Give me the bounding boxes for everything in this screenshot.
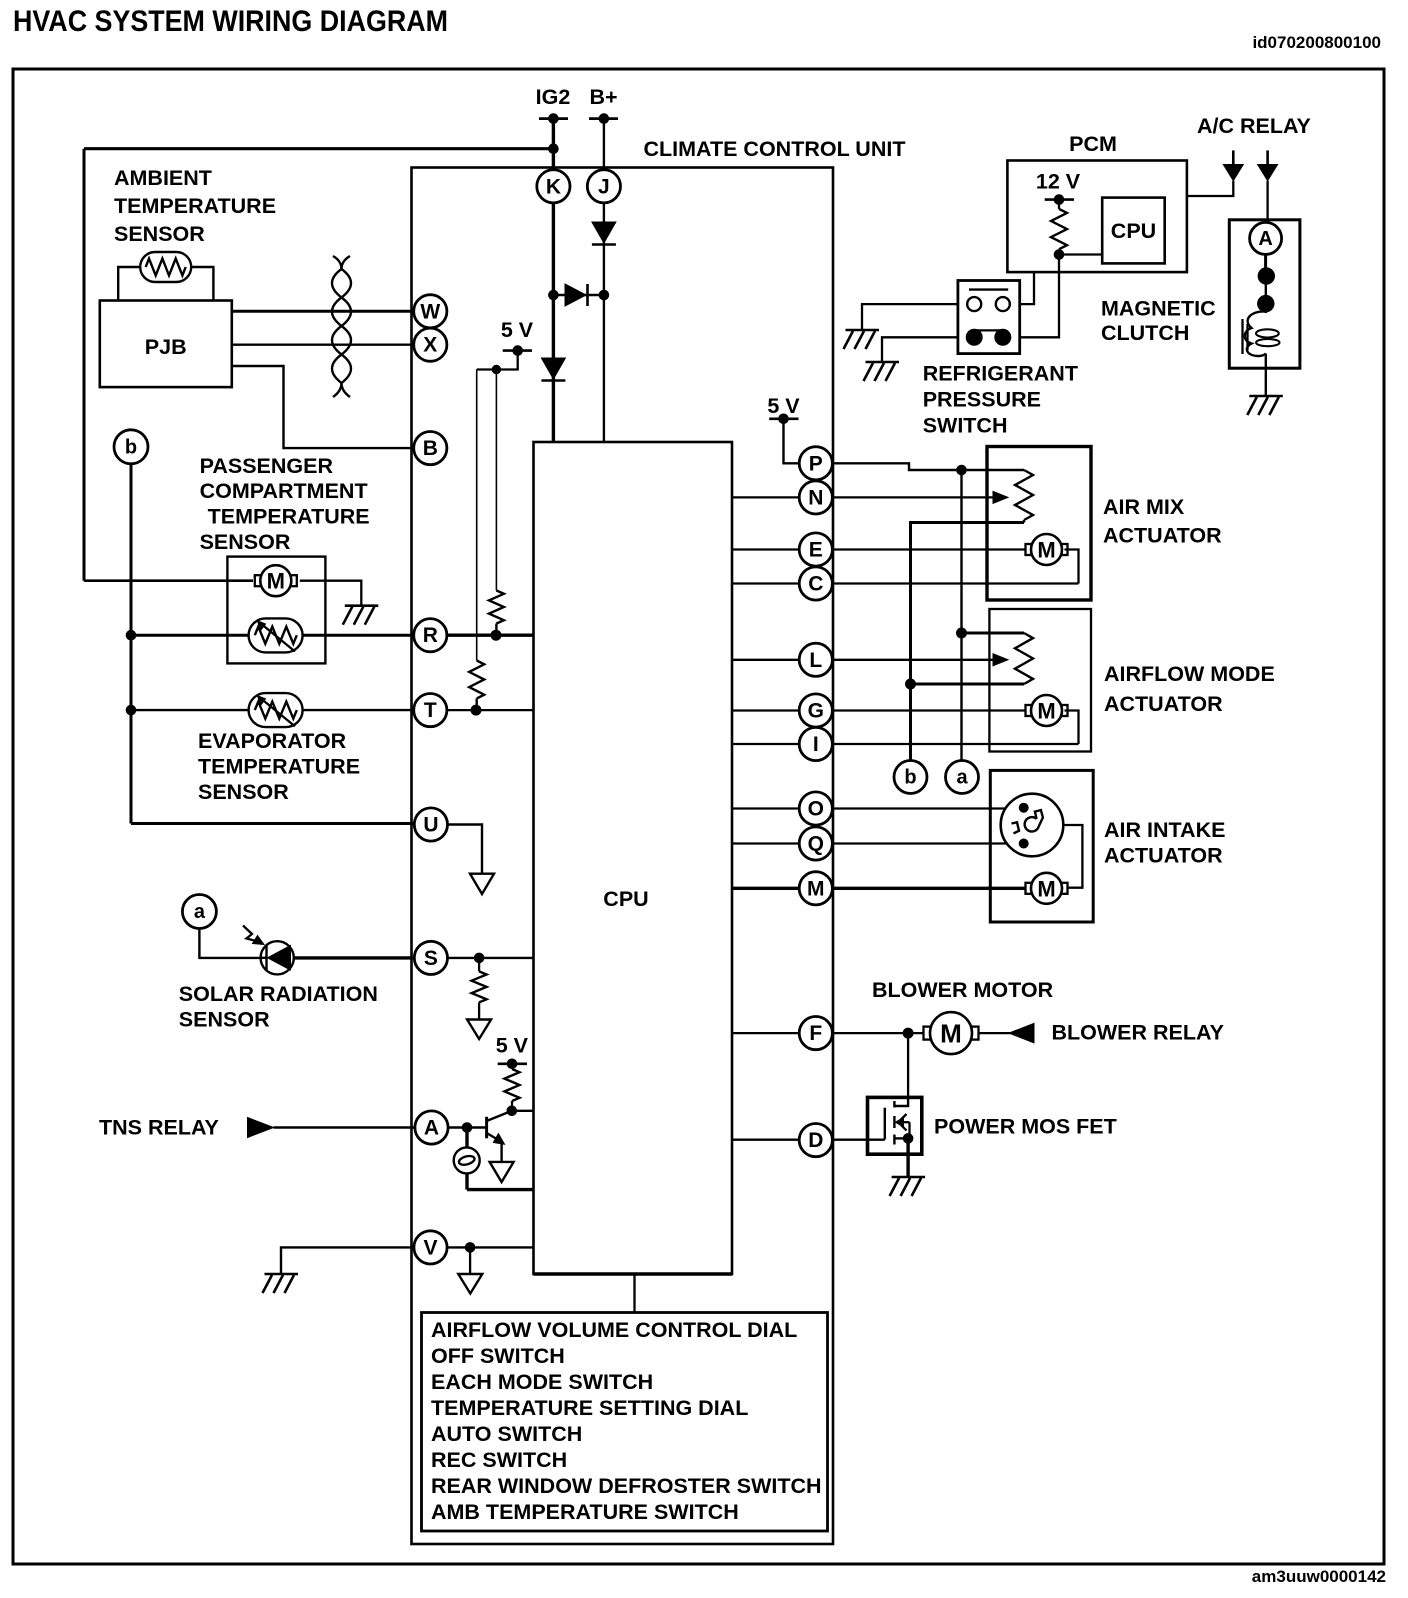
doc id id070200800100 [1252, 33, 1381, 52]
svg-text:IG2: IG2 [536, 85, 571, 109]
terminal B+ [589, 114, 618, 124]
svg-text:AIRFLOW MODE: AIRFLOW MODE [1104, 662, 1275, 686]
wire blower junction to MOSFET [907, 1033, 909, 1097]
svg-text:M: M [940, 1019, 962, 1049]
svg-text:12 V: 12 V [1036, 170, 1081, 194]
wire airflow pot bottom [911, 683, 1025, 686]
wire left feed down to aspirator motor [84, 149, 253, 581]
PJB box [100, 301, 232, 388]
wire P to air mix pot [832, 463, 1024, 470]
svg-text:am3uuw0000142: am3uuw0000142 [1252, 1567, 1386, 1586]
wire Q from CPU [732, 842, 1024, 844]
connector M [799, 872, 832, 905]
PCM CPU box [1102, 198, 1165, 264]
svg-text:T: T [424, 699, 437, 722]
wire emitter to ground arrow [500, 1142, 502, 1162]
wire G from CPU [732, 709, 1031, 711]
air intake actuator box [990, 770, 1093, 922]
wire I from CPU [732, 743, 1079, 745]
svg-text:E: E [809, 539, 823, 562]
label 12 V [1036, 170, 1081, 194]
wire V node to ground arrow [469, 1247, 471, 1274]
magnetic clutch box [1229, 220, 1300, 368]
wire switch pin1 to ground [862, 304, 968, 330]
climate control unit box [412, 168, 834, 1545]
label 5 V (transistor pullup) [496, 1034, 529, 1058]
svg-text:TNS RELAY: TNS RELAY [99, 1116, 219, 1140]
resistor collector pullup [505, 1064, 520, 1111]
svg-text:V: V [423, 1236, 437, 1259]
svg-text:REAR WINDOW DEFROSTER SWITCH: REAR WINDOW DEFROSTER SWITCH [431, 1474, 822, 1498]
evaporator temperature sensor thermistor [249, 693, 303, 727]
wire PJB to W [232, 310, 414, 313]
junction R-pullup to R wire [491, 630, 501, 640]
connector B [414, 432, 447, 465]
resistor T-pullup [469, 370, 484, 711]
wire L from CPU [732, 659, 999, 661]
svg-text:ACTUATOR: ACTUATOR [1104, 844, 1223, 868]
svg-text:K: K [546, 175, 561, 198]
wire M from CPU [732, 887, 1031, 890]
wire air intake switch to motor [1063, 825, 1082, 888]
clutch coil [1243, 311, 1280, 396]
label AIR MIX ACTUATOR [1103, 495, 1222, 548]
arrow L wiper [993, 654, 1008, 666]
wire air mix motor return [1065, 550, 1079, 584]
junction 5V-R-pullup [492, 365, 500, 373]
ground arrow (emitter) [490, 1162, 514, 1182]
wire 5V to pullup resistors [477, 351, 518, 370]
svg-text:CLUTCH: CLUTCH [1101, 321, 1189, 345]
diode D3 on K line [541, 358, 565, 381]
wire O from CPU [732, 807, 1024, 809]
solar radiation sensor photodiode [261, 941, 294, 974]
connector P [799, 447, 832, 480]
junction A node [462, 1123, 472, 1133]
diode D2 cross link [565, 284, 588, 306]
wire node-b bus vertical [130, 464, 133, 824]
svg-text:AMB TEMPERATURE SWITCH: AMB TEMPERATURE SWITCH [431, 1500, 739, 1524]
svg-text:M: M [1037, 699, 1055, 724]
ambient temperature sensor thermistor [140, 252, 191, 282]
svg-text:CPU: CPU [1111, 219, 1156, 243]
svg-text:5 V: 5 V [496, 1034, 529, 1058]
svg-text:X: X [423, 334, 437, 357]
switch panel text [431, 1318, 822, 1524]
wire airflow pot top [962, 632, 1025, 635]
svg-text:Q: Q [808, 833, 824, 856]
svg-text:SENSOR: SENSOR [179, 1008, 270, 1032]
svg-text:L: L [809, 649, 822, 672]
wire switch pin4 to PCM resistor [1010, 255, 1059, 338]
resistor R-pullup [489, 370, 504, 636]
junction on J line [599, 290, 609, 300]
passenger compartment thermistor [249, 618, 303, 652]
connector U [414, 808, 447, 841]
label CLIMATE CONTROL UNIT [644, 137, 906, 161]
label CPU (PCM) [1111, 219, 1156, 243]
connector J [587, 170, 620, 203]
svg-text:AIR INTAKE: AIR INTAKE [1104, 818, 1225, 842]
svg-text:A: A [424, 1117, 439, 1140]
junction b-R [126, 630, 136, 640]
svg-text:B: B [423, 437, 438, 460]
wire thermistor to PJB right [192, 267, 213, 301]
connector L [799, 643, 832, 676]
wire TNS to A [274, 1126, 416, 1128]
label TNS RELAY [99, 1116, 219, 1140]
resistor PCM pullup [1051, 200, 1067, 255]
wire C from CPU [732, 582, 1079, 584]
svg-text:R: R [423, 624, 438, 647]
svg-text:SENSOR: SENSOR [200, 530, 291, 554]
wire PCM resistor to CPU [1059, 253, 1102, 255]
wire thermistor to PJB left [118, 267, 141, 301]
connector F [799, 1017, 832, 1050]
connector I [799, 727, 832, 760]
wire MOSFET source to ground [906, 1138, 909, 1177]
svg-text:a: a [956, 767, 968, 789]
wire PJB to X [232, 344, 414, 346]
svg-text:B+: B+ [589, 85, 617, 109]
svg-text:OFF SWITCH: OFF SWITCH [431, 1344, 565, 1368]
wire switch pin3 to ground [882, 337, 967, 362]
MOSFET Q2 [885, 1097, 913, 1144]
connector R [414, 619, 447, 652]
connector S [414, 941, 447, 974]
indicator lamp [454, 1128, 480, 1190]
terminal 5V (sensor pullups) [503, 346, 532, 356]
ground arrow (U) [470, 874, 494, 894]
connector N [799, 481, 832, 514]
aspirator motor M [255, 565, 297, 596]
label 5 V (sensor pullups) [501, 318, 534, 342]
switch panel box [422, 1313, 828, 1532]
svg-text:I: I [813, 733, 819, 756]
svg-text:U: U [423, 814, 438, 837]
wire PJB to B [232, 366, 414, 448]
svg-text:POWER MOS FET: POWER MOS FET [934, 1115, 1117, 1139]
CPU box [534, 442, 733, 1274]
wire E from CPU [732, 548, 1031, 550]
junction T-pullup to T wire [471, 705, 481, 715]
transistor Q1 [487, 1111, 512, 1144]
label SOLAR RADIATION SENSOR [179, 982, 378, 1032]
label A/C RELAY [1197, 114, 1311, 138]
junction b-T [126, 705, 136, 715]
label AIRFLOW MODE ACTUATOR [1104, 662, 1275, 716]
wire CPU to keypad box [633, 1274, 635, 1313]
node b (right) [894, 761, 927, 794]
connector K [537, 170, 570, 203]
label CPU [603, 887, 648, 911]
label AMBIENT TEMPERATURE SENSOR [114, 166, 276, 246]
svg-text:COMPARTMENT: COMPARTMENT [200, 479, 368, 503]
air mix actuator box [987, 447, 1091, 601]
label IG2 [536, 85, 571, 109]
svg-text:S: S [424, 947, 438, 970]
clutch contact top [1258, 268, 1274, 284]
ground arrow (S) [467, 1020, 491, 1040]
connector W [414, 295, 447, 328]
airflow mode potentiometer [1015, 633, 1033, 684]
junction a-airflow [957, 628, 967, 638]
wire IG2 branch left [84, 147, 553, 150]
connector V [414, 1231, 447, 1264]
node a (left) [182, 895, 216, 929]
wire U to ground arrow [448, 825, 483, 874]
svg-text:O: O [808, 798, 824, 821]
svg-text:M: M [807, 877, 825, 900]
label POWER MOS FET [934, 1115, 1117, 1139]
svg-text:PRESSURE: PRESSURE [923, 388, 1041, 412]
ground (magnetic clutch) [1247, 396, 1283, 415]
wire a to photodiode [199, 929, 261, 958]
terminal 5V (transistor) [498, 1059, 527, 1069]
diode D1 on J line [592, 222, 616, 245]
junction on K line [549, 290, 559, 300]
connector C [799, 567, 832, 600]
wire AC relay to magnetic clutch [1266, 181, 1268, 223]
svg-text:EACH MODE SWITCH: EACH MODE SWITCH [431, 1370, 653, 1394]
label PJB [145, 335, 187, 359]
arrow from blower relay [1009, 1023, 1034, 1043]
svg-text:A/C RELAY: A/C RELAY [1197, 114, 1311, 138]
label BLOWER RELAY [1052, 1021, 1224, 1045]
svg-text:REC SWITCH: REC SWITCH [431, 1448, 567, 1472]
svg-text:SENSOR: SENSOR [198, 780, 289, 804]
wire A to contacts [1264, 254, 1267, 313]
svg-text:SWITCH: SWITCH [923, 414, 1008, 438]
wire photodiode to S [294, 956, 415, 959]
wire PCM to AC relay [1187, 181, 1233, 196]
svg-text:C: C [808, 573, 823, 596]
connector T [414, 694, 447, 727]
wire aspirator motor to ground [300, 581, 362, 606]
refrigerant pressure switch contacts [966, 290, 1011, 346]
svg-text:TEMPERATURE: TEMPERATURE [198, 755, 360, 779]
air mix motor [1026, 534, 1068, 565]
svg-text:PCM: PCM [1069, 132, 1117, 156]
svg-text:SOLAR RADIATION: SOLAR RADIATION [179, 982, 378, 1006]
svg-text:5 V: 5 V [501, 318, 534, 342]
svg-text:AMBIENT: AMBIENT [114, 166, 212, 190]
svg-text:J: J [598, 175, 610, 198]
svg-text:W: W [420, 300, 440, 323]
svg-text:P: P [809, 452, 823, 475]
wire ground to V [281, 1247, 414, 1274]
resistor S-pulldown [472, 958, 487, 1020]
svg-text:id070200800100: id070200800100 [1252, 33, 1381, 52]
wire R to CPU [447, 634, 534, 637]
junction S node [474, 953, 484, 963]
connector X [414, 328, 447, 361]
wire T sensor line [131, 709, 414, 711]
svg-text:F: F [809, 1022, 822, 1045]
wire lamp to CPU [467, 1188, 534, 1191]
wire B+ to J connector (vertical) [603, 119, 605, 442]
wire D from CPU [732, 1138, 885, 1140]
svg-text:G: G [808, 700, 824, 723]
junction blower [903, 1028, 913, 1038]
svg-text:BLOWER MOTOR: BLOWER MOTOR [872, 978, 1054, 1002]
wire V to CPU [447, 1246, 534, 1248]
svg-text:AUTO SWITCH: AUTO SWITCH [431, 1422, 582, 1446]
arrow A/C relay 2 [1258, 150, 1278, 180]
PCM box [1007, 161, 1187, 273]
svg-text:TEMPERATURE: TEMPERATURE [208, 505, 370, 529]
connector D [799, 1124, 832, 1157]
ground (aspirator motor) [343, 606, 379, 625]
air mix potentiometer [1015, 470, 1033, 523]
ground (V left) [263, 1274, 299, 1293]
wire N from CPU [732, 496, 999, 498]
wire 5V to P [784, 419, 800, 464]
node b (left) [114, 430, 148, 464]
svg-text:SENSOR: SENSOR [114, 222, 205, 246]
title HVAC SYSTEM WIRING DIAGRAM [13, 5, 448, 38]
svg-text:M: M [1037, 876, 1055, 901]
ground (switch pin3) [864, 362, 900, 381]
svg-text:PJB: PJB [145, 335, 187, 359]
svg-text:AIRFLOW VOLUME CONTROL DIAL: AIRFLOW VOLUME CONTROL DIAL [431, 1318, 797, 1342]
wire K-J cross link [553, 294, 604, 296]
junction PCM resistor [1054, 250, 1064, 260]
node a (right) [946, 761, 979, 794]
svg-text:MAGNETIC: MAGNETIC [1101, 297, 1216, 321]
wire R sensor line [131, 634, 414, 637]
svg-text:BLOWER RELAY: BLOWER RELAY [1052, 1021, 1224, 1045]
svg-text:CLIMATE CONTROL UNIT: CLIMATE CONTROL UNIT [644, 137, 906, 161]
wire b bus to U [131, 822, 415, 825]
air intake switch [1001, 794, 1064, 857]
svg-text:a: a [194, 901, 206, 923]
airflow mode motor [1026, 695, 1068, 726]
wire S to CPU [448, 957, 534, 959]
svg-text:CPU: CPU [603, 887, 648, 911]
terminal 12V [1045, 195, 1074, 205]
svg-text:M: M [267, 569, 285, 594]
wire F from CPU [732, 1032, 930, 1034]
connector G [799, 694, 832, 727]
refrigerant pressure switch box [958, 281, 1020, 354]
svg-text:b: b [904, 767, 916, 789]
wire airflow motor return [1065, 711, 1079, 745]
wire air mix pot bottom to b [911, 523, 1025, 761]
connector A [415, 1111, 448, 1144]
junction collector node [507, 1106, 517, 1116]
ground (MOSFET) [890, 1177, 926, 1196]
svg-text:ACTUATOR: ACTUATOR [1103, 524, 1222, 548]
label MAGNETIC CLUTCH [1101, 297, 1216, 346]
svg-text:EVAPORATOR: EVAPORATOR [198, 729, 347, 753]
label 5 V (P) [767, 394, 800, 418]
svg-text:REFRIGERANT: REFRIGERANT [923, 361, 1078, 385]
label BLOWER MOTOR [872, 978, 1054, 1002]
ground (switch pin1) [844, 330, 880, 349]
svg-text:D: D [808, 1129, 823, 1152]
ground arrow (V) [458, 1274, 482, 1294]
label PASSENGER COMPARTMENT TEMPERATURE SENSOR [200, 454, 370, 554]
wire a drop line [960, 470, 962, 761]
wire blower motor to relay arrow [978, 1032, 1010, 1034]
connector E [799, 533, 832, 566]
label EVAPORATOR TEMPERATURE SENSOR [198, 729, 360, 804]
junction on IG2 wire [549, 144, 559, 154]
svg-text:N: N [808, 486, 823, 509]
terminal 5V (P) [769, 414, 798, 424]
airflow mode actuator box [989, 609, 1091, 752]
ammeter A [1250, 222, 1282, 254]
wire collector to CPU [512, 1110, 534, 1112]
svg-text:PASSENGER: PASSENGER [200, 454, 334, 478]
svg-text:ACTUATOR: ACTUATOR [1104, 692, 1223, 716]
twisted pair symbol [332, 256, 351, 397]
arrow N wiper [993, 491, 1008, 503]
terminal IG2 [539, 114, 568, 124]
junction P-a [957, 465, 967, 475]
wire T to CPU [447, 709, 534, 711]
svg-text:HVAC SYSTEM WIRING DIAGRAM: HVAC SYSTEM WIRING DIAGRAM [13, 5, 448, 38]
wire IG2 to K connector (vertical) [552, 119, 555, 442]
svg-text:A: A [1258, 228, 1272, 250]
passenger compartment temperature sensor box [227, 557, 325, 664]
arrow from TNS relay [248, 1118, 274, 1138]
connector O [799, 792, 832, 825]
power MOS FET box [868, 1097, 922, 1154]
svg-text:AIR MIX: AIR MIX [1103, 495, 1185, 519]
connector Q [799, 827, 832, 860]
label REFRIGERANT PRESSURE SWITCH [923, 361, 1078, 437]
label B+ [589, 85, 617, 109]
blower motor [924, 1012, 979, 1054]
label AIR INTAKE ACTUATOR [1104, 818, 1225, 868]
clutch contact bottom [1258, 295, 1274, 311]
light rays arrow [243, 926, 264, 945]
svg-text:b: b [125, 436, 137, 458]
svg-text:TEMPERATURE SETTING DIAL: TEMPERATURE SETTING DIAL [431, 1396, 748, 1420]
wire switch pin2 to PCM [1010, 272, 1034, 304]
doc id am3uuw0000142 [1252, 1567, 1386, 1586]
wire A to transistor base [448, 1126, 487, 1129]
air intake motor [1026, 873, 1068, 904]
svg-text:M: M [1037, 538, 1055, 563]
label PCM [1069, 132, 1117, 156]
junction b-airflow [906, 679, 916, 689]
svg-text:TEMPERATURE: TEMPERATURE [114, 194, 276, 218]
arrow A/C relay 1 [1223, 150, 1243, 180]
junction V node [465, 1243, 475, 1253]
